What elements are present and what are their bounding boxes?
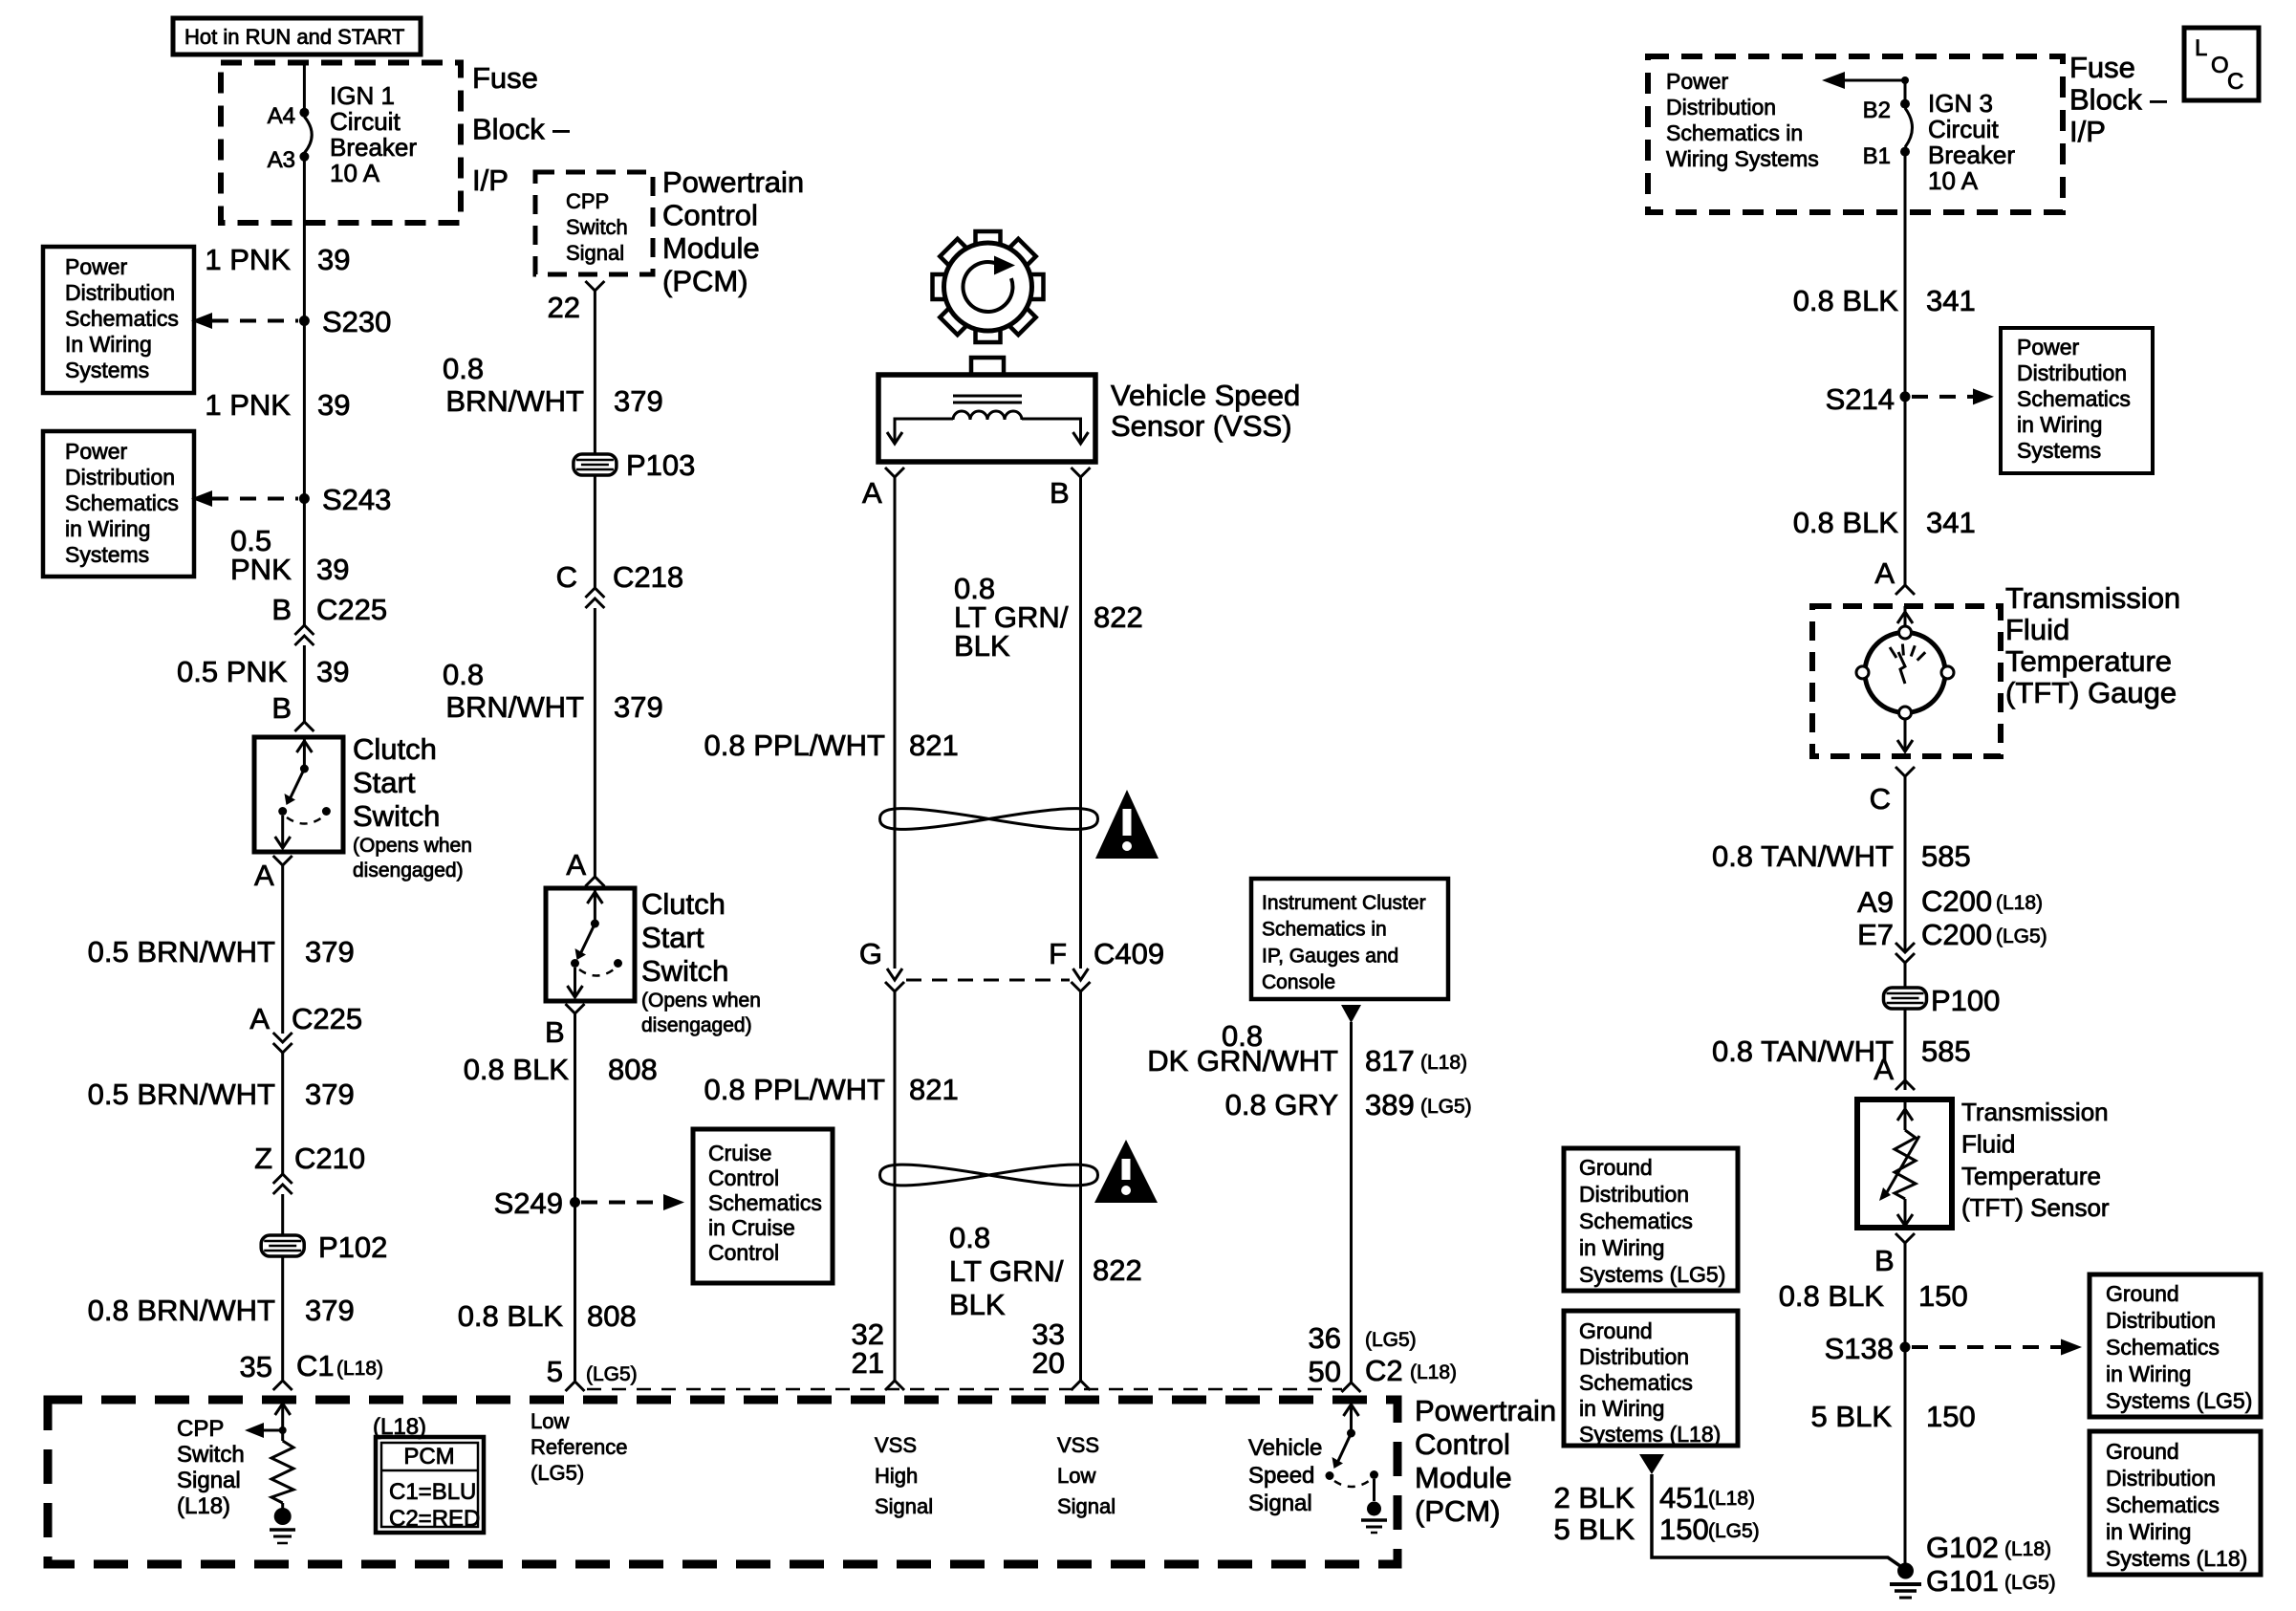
connector C200 symbol (double chevron down) — [1895, 943, 1915, 952]
svg-text:A: A — [862, 476, 882, 510]
svg-text:Circuit: Circuit — [330, 107, 401, 136]
wire clutch switch A to C225 pin A, circuit 379 — [281, 865, 284, 1034]
svg-text:C210: C210 — [294, 1142, 365, 1175]
svg-text:Breaker: Breaker — [330, 133, 417, 162]
svg-text:BRN/WHT: BRN/WHT — [445, 690, 584, 724]
svg-text:in Wiring: in Wiring — [1579, 1235, 1664, 1260]
wire S249 to PCM pin 5 — [574, 1207, 576, 1381]
wire C409 G to PCM pins 32/21 — [894, 991, 897, 1381]
PCM internal CPP switch signal pin arrow — [281, 1402, 284, 1441]
svg-text:Fluid: Fluid — [1961, 1129, 2015, 1158]
svg-text:VSS: VSS — [875, 1433, 917, 1457]
svg-text:Low: Low — [1057, 1464, 1095, 1488]
svg-text:Wiring Systems: Wiring Systems — [1666, 146, 1819, 171]
svg-text:C2: C2 — [1365, 1354, 1403, 1387]
svg-text:in Wiring: in Wiring — [1579, 1396, 1664, 1421]
svg-text:22: 22 — [548, 291, 580, 324]
svg-text:I/P: I/P — [472, 163, 509, 197]
svg-text:Speed: Speed — [1248, 1463, 1314, 1489]
svg-text:1 PNK: 1 PNK — [205, 243, 291, 276]
svg-text:B1: B1 — [1863, 143, 1891, 169]
reference box Ground Distribution Schematics in Wiring Systems (LG5) middle — [1564, 1148, 1738, 1291]
svg-text:Signal: Signal — [1248, 1491, 1312, 1516]
svg-text:Module: Module — [1415, 1461, 1512, 1494]
svg-text:0.8 GRY: 0.8 GRY — [1225, 1088, 1338, 1121]
svg-text:0.8 TAN/WHT: 0.8 TAN/WHT — [1712, 839, 1894, 873]
svg-text:C409: C409 — [1094, 937, 1164, 970]
fuse block I/P dashed box (left) — [221, 63, 461, 224]
svg-text:Power: Power — [1666, 69, 1729, 94]
dashed arrow from S243 to power distribution box — [212, 497, 298, 501]
svg-text:I/P: I/P — [2069, 115, 2106, 148]
wire feed to breaker B2 — [1904, 80, 1907, 100]
wire P100 to TFT sensor pin A — [1904, 1010, 1907, 1090]
svg-text:E7: E7 — [1857, 918, 1894, 951]
svg-text:822: 822 — [1094, 600, 1143, 634]
svg-text:39: 39 — [317, 388, 350, 422]
svg-text:Signal: Signal — [875, 1494, 933, 1518]
svg-text:Start: Start — [353, 766, 416, 799]
dashed arrow from S138 to ground distribution box — [1912, 1345, 2061, 1349]
svg-text:Schematics: Schematics — [65, 490, 179, 515]
svg-text:Systems: Systems — [65, 358, 149, 382]
pin chevron at VSS B — [1072, 468, 1091, 477]
PCM internal vehicle speed signal switch pin arrow — [1350, 1402, 1353, 1433]
svg-text:Systems (L18): Systems (L18) — [2106, 1546, 2247, 1571]
pin chevron at PCM pin 21 — [885, 1381, 904, 1390]
svg-text:In Wiring: In Wiring — [65, 332, 152, 357]
svg-text:Transmission: Transmission — [2005, 581, 2180, 615]
wire clutch switch 2 B to S249, circuit 808 — [574, 1013, 576, 1198]
svg-text:Console: Console — [1262, 971, 1335, 993]
svg-text:S249: S249 — [494, 1186, 563, 1220]
VSS pickup coil — [953, 411, 1022, 420]
transmission fluid temperature TFT gauge dashed box — [1812, 606, 2001, 756]
wire C409 F to PCM pins 33/20 — [1079, 991, 1082, 1381]
svg-text:F: F — [1049, 937, 1067, 970]
VSS internal wire to pin B — [1022, 419, 1081, 442]
wire instrument cluster to PCM pin 50, circuit 817/389 — [1350, 1022, 1353, 1382]
svg-text:Schematics: Schematics — [65, 306, 179, 331]
svg-text:Fuse: Fuse — [2069, 51, 2135, 84]
svg-text:379: 379 — [305, 1078, 355, 1111]
terminal A3 — [299, 152, 309, 162]
svg-text:817: 817 — [1365, 1044, 1415, 1078]
wire P102 to PCM pin 35, circuit 379 — [281, 1256, 284, 1380]
clutch start switch 2 bottom pin — [574, 968, 576, 997]
svg-text:C: C — [1870, 782, 1891, 816]
svg-text:Distribution: Distribution — [2017, 360, 2127, 385]
svg-text:379: 379 — [614, 384, 663, 418]
svg-text:35: 35 — [240, 1350, 272, 1383]
connector C210 symbol (double chevron up) — [273, 1174, 292, 1184]
wire C218 to clutch start switch pin A — [594, 608, 596, 877]
svg-text:Control: Control — [708, 1240, 779, 1265]
svg-text:Reference: Reference — [531, 1435, 628, 1459]
svg-text:IGN 3: IGN 3 — [1928, 89, 1993, 118]
svg-text:P102: P102 — [318, 1230, 387, 1264]
clutch start switch 2 blade (open) — [581, 924, 595, 952]
svg-text:(Opens when: (Opens when — [641, 990, 761, 1012]
PCM ground wire to G102/G101 — [1652, 1474, 1900, 1566]
svg-text:S230: S230 — [322, 305, 391, 338]
arrow from ground boxes to PCM ground wire — [1639, 1454, 1664, 1474]
svg-text:0.8 BLK: 0.8 BLK — [1793, 284, 1899, 317]
svg-text:(L18): (L18) — [2004, 1538, 2051, 1560]
TFT sensor thermistor zigzag — [1895, 1130, 1916, 1199]
reference box Power Distribution Schematics in Wiring Systems (lower left) — [43, 431, 194, 577]
svg-text:in Wiring: in Wiring — [2106, 1519, 2191, 1544]
twisted pair symbol (upper) — [880, 809, 1098, 830]
svg-text:0.8 PPL/WHT: 0.8 PPL/WHT — [704, 729, 886, 762]
svg-text:Module: Module — [662, 231, 760, 265]
clutch start switch contacts — [278, 807, 287, 816]
svg-text:1 PNK: 1 PNK — [205, 388, 291, 422]
svg-text:(L18): (L18) — [1410, 1361, 1457, 1383]
svg-text:341: 341 — [1926, 284, 1976, 317]
svg-text:A: A — [254, 859, 274, 892]
svg-text:IGN 1: IGN 1 — [330, 81, 395, 110]
svg-text:0.8 TAN/WHT: 0.8 TAN/WHT — [1712, 1034, 1894, 1068]
svg-text:150: 150 — [1926, 1400, 1976, 1433]
wire from Hot feed to breaker A4 — [303, 65, 306, 109]
svg-text:5 BLK: 5 BLK — [1554, 1513, 1635, 1546]
svg-text:(Opens when: (Opens when — [353, 835, 472, 857]
svg-text:Signal: Signal — [1057, 1494, 1116, 1518]
reluctor gear rotation arrow — [963, 262, 1012, 312]
svg-text:BRN/WHT: BRN/WHT — [445, 384, 584, 418]
svg-text:High: High — [875, 1464, 918, 1488]
svg-text:A9: A9 — [1857, 885, 1894, 919]
svg-text:808: 808 — [608, 1053, 658, 1086]
svg-text:C1=BLU: C1=BLU — [389, 1479, 476, 1505]
svg-text:A: A — [249, 1002, 270, 1035]
svg-text:Fuse: Fuse — [472, 61, 538, 95]
svg-text:G: G — [859, 937, 882, 970]
svg-text:G102: G102 — [1926, 1531, 1999, 1564]
svg-text:(L18): (L18) — [336, 1358, 383, 1380]
reference box Instrument Cluster Schematics in IP, Gauges and Console — [1251, 879, 1448, 999]
svg-text:Power: Power — [65, 439, 128, 464]
svg-text:VSS: VSS — [1057, 1433, 1099, 1457]
svg-text:disengaged): disengaged) — [353, 860, 464, 882]
wire C225 to C210 pin Z — [281, 1053, 284, 1174]
svg-text:0.8 BLK: 0.8 BLK — [464, 1053, 570, 1086]
svg-text:S214: S214 — [1826, 382, 1895, 416]
svg-text:A3: A3 — [268, 147, 295, 173]
svg-text:B2: B2 — [1863, 98, 1891, 123]
terminal B1 — [1900, 147, 1910, 157]
svg-text:P100: P100 — [1931, 984, 2000, 1017]
VSS mounting tab — [971, 358, 1004, 375]
svg-text:Switch: Switch — [566, 215, 628, 239]
svg-text:Cruise: Cruise — [708, 1141, 771, 1165]
svg-text:(L18): (L18) — [177, 1493, 230, 1519]
svg-text:Switch: Switch — [641, 954, 728, 988]
pin chevron at PCM pin 50 — [1342, 1382, 1361, 1392]
clutch start switch bottom pin — [281, 816, 284, 848]
svg-text:A4: A4 — [268, 103, 295, 129]
clutch start switch blade (open) — [291, 769, 304, 797]
pin chevron at clutch start switch 2 B — [566, 1004, 585, 1013]
pin chevron at clutch start switch 2 A — [585, 877, 604, 886]
svg-text:Hot in RUN and START: Hot in RUN and START — [184, 25, 404, 49]
reference box Ground Distribution Schematics in Wiring Systems (L18) right — [2090, 1431, 2261, 1575]
wire S138 to ground G102/G101 — [1904, 1352, 1907, 1564]
svg-text:2 BLK: 2 BLK — [1554, 1481, 1635, 1514]
connector C409 arrows and chevrons — [887, 969, 902, 980]
pin chevron at PCM pin 20 — [1072, 1381, 1091, 1390]
svg-text:Systems: Systems — [65, 542, 149, 567]
pass-through grommet P102 — [261, 1235, 304, 1256]
TFT gauge needle and ticks — [1898, 652, 1905, 684]
svg-text:(LG5): (LG5) — [1420, 1096, 1472, 1118]
pass-through grommet P100 — [1884, 988, 1927, 1009]
svg-text:Fluid: Fluid — [2005, 613, 2069, 646]
svg-text:Schematics: Schematics — [2017, 386, 2131, 411]
svg-text:0.5 BRN/WHT: 0.5 BRN/WHT — [88, 1078, 275, 1111]
svg-text:C218: C218 — [613, 560, 683, 594]
svg-text:379: 379 — [614, 690, 663, 724]
svg-text:(TFT) Gauge: (TFT) Gauge — [2005, 676, 2177, 709]
TFT gauge top pin — [1904, 606, 1907, 627]
svg-text:CPP: CPP — [566, 189, 609, 213]
svg-text:A: A — [566, 848, 586, 882]
wire B1 to S214, circuit 341 — [1904, 156, 1907, 392]
svg-text:0.8: 0.8 — [443, 658, 484, 691]
svg-text:0.8: 0.8 — [949, 1221, 990, 1254]
svg-text:Distribution: Distribution — [2106, 1466, 2216, 1491]
svg-text:Ground: Ground — [1579, 1318, 1653, 1343]
svg-text:150: 150 — [1918, 1279, 1968, 1313]
ground symbol G102/G101 — [1890, 1582, 1921, 1586]
PCM internal ground dot — [1367, 1502, 1381, 1516]
svg-text:Schematics: Schematics — [708, 1190, 822, 1215]
svg-text:Schematics: Schematics — [2106, 1335, 2220, 1360]
terminal A4 — [299, 108, 309, 118]
svg-text:Vehicle Speed: Vehicle Speed — [1111, 379, 1300, 412]
warning note triangle (upper) — [1095, 790, 1159, 859]
splice S249 — [570, 1197, 580, 1208]
svg-text:Start: Start — [641, 921, 704, 954]
svg-text:39: 39 — [317, 243, 350, 276]
svg-text:39: 39 — [316, 553, 349, 586]
svg-text:0.8 BRN/WHT: 0.8 BRN/WHT — [88, 1294, 275, 1327]
svg-text:C: C — [556, 560, 577, 594]
svg-text:822: 822 — [1093, 1253, 1142, 1287]
twisted pair symbol (lower) — [880, 1165, 1098, 1186]
thin dashed harness line above PCM — [587, 1388, 1342, 1391]
svg-text:0.8: 0.8 — [443, 352, 484, 385]
transmission fluid temperature TFT sensor box — [1857, 1099, 1952, 1228]
svg-text:Temperature: Temperature — [1961, 1162, 2101, 1190]
svg-text:PNK: PNK — [230, 553, 292, 586]
svg-text:C1: C1 — [296, 1349, 335, 1382]
pin chevron at PCM pin 35 — [273, 1381, 292, 1390]
svg-text:C2=RED: C2=RED — [389, 1506, 480, 1532]
clutch start switch top pin — [303, 737, 306, 765]
svg-text:in Wiring: in Wiring — [65, 516, 150, 541]
svg-text:10 A: 10 A — [1928, 166, 1979, 195]
svg-text:in Cruise: in Cruise — [708, 1215, 795, 1240]
svg-text:0.8 BLK: 0.8 BLK — [1793, 506, 1899, 539]
svg-text:(PCM): (PCM) — [1415, 1494, 1501, 1528]
svg-text:5 BLK: 5 BLK — [1811, 1400, 1893, 1433]
svg-text:in Wiring: in Wiring — [2017, 412, 2102, 437]
TFT sensor bottom pin — [1904, 1199, 1907, 1226]
circuit breaker IGN 1 element — [304, 117, 312, 153]
pin chevron at PCM pin 5 — [566, 1382, 585, 1391]
svg-text:DK GRN/WHT: DK GRN/WHT — [1147, 1044, 1338, 1078]
svg-text:Schematics in: Schematics in — [1262, 919, 1387, 941]
reluctor gear teeth — [1030, 274, 1044, 299]
svg-text:BLK: BLK — [949, 1288, 1006, 1321]
svg-text:Distribution: Distribution — [1666, 95, 1776, 120]
svg-text:379: 379 — [305, 935, 355, 969]
wire S214 to TFT gauge pin A — [1904, 402, 1907, 585]
TFT gauge bottom pin — [1904, 719, 1907, 751]
wire S243 to connector C225 pin B — [303, 503, 306, 625]
wire pin 22 to P103, circuit 379 — [594, 291, 596, 454]
svg-text:(LG5): (LG5) — [2004, 1572, 2056, 1594]
PCM connector color key box — [376, 1437, 484, 1533]
svg-text:Instrument Cluster: Instrument Cluster — [1262, 892, 1426, 914]
svg-text:Block –: Block – — [2069, 83, 2167, 117]
svg-text:Powertrain: Powertrain — [662, 165, 804, 199]
svg-text:B: B — [545, 1015, 565, 1049]
svg-text:39: 39 — [316, 655, 349, 688]
svg-text:Breaker: Breaker — [1928, 141, 2015, 169]
svg-text:(LG5): (LG5) — [1708, 1520, 1760, 1542]
wire A3 to S230, circuit 39 — [303, 161, 306, 316]
PCM internal wire to ground — [1373, 1479, 1375, 1501]
svg-text:Ground: Ground — [2106, 1281, 2179, 1306]
connector C409 dashed connector line — [906, 979, 1070, 982]
svg-text:(L18): (L18) — [1420, 1052, 1467, 1074]
pin chevron at VSS A — [885, 468, 904, 477]
svg-text:Switch: Switch — [353, 799, 440, 833]
svg-text:(TFT) Sensor: (TFT) Sensor — [1961, 1193, 2110, 1222]
svg-text:Signal: Signal — [177, 1468, 241, 1493]
svg-text:Signal: Signal — [566, 241, 624, 265]
svg-text:Power: Power — [2017, 335, 2080, 359]
fuse block I/P dashed box (right) — [1648, 56, 2063, 212]
TFT sensor top pin — [1904, 1099, 1907, 1130]
svg-text:Temperature: Temperature — [2005, 644, 2172, 678]
svg-text:(L18): (L18) — [1996, 892, 2043, 914]
svg-text:10 A: 10 A — [330, 159, 380, 187]
svg-text:Distribution: Distribution — [2106, 1308, 2216, 1333]
dashed arrow from S249 to cruise control box — [581, 1201, 663, 1205]
svg-text:Systems (LG5): Systems (LG5) — [2106, 1388, 2252, 1413]
svg-text:B: B — [1050, 476, 1070, 510]
splice S243 — [299, 493, 310, 504]
clutch start switch 2 contacts — [571, 959, 579, 968]
svg-text:IP, Gauges and: IP, Gauges and — [1262, 945, 1398, 967]
pin chevron at clutch start switch A — [273, 856, 292, 865]
svg-text:585: 585 — [1921, 839, 1971, 873]
location grid box L O C — [2184, 28, 2259, 100]
splice S230 — [299, 316, 310, 326]
feed arrow inside fuse block — [1845, 79, 1905, 82]
svg-text:CPP: CPP — [177, 1416, 224, 1442]
svg-text:Z: Z — [254, 1142, 272, 1175]
svg-text:(PCM): (PCM) — [662, 265, 748, 298]
PCM internal ground symbol — [270, 1528, 295, 1532]
svg-text:BLK: BLK — [954, 629, 1010, 663]
svg-text:disengaged): disengaged) — [641, 1014, 752, 1036]
wire C225 to clutch start switch pin B — [303, 645, 306, 722]
svg-text:20: 20 — [1032, 1346, 1065, 1380]
connector C225 symbol (double chevron) — [294, 625, 314, 635]
VSS core lines — [953, 395, 1022, 398]
svg-text:Power: Power — [65, 254, 128, 279]
svg-text:821: 821 — [909, 1073, 959, 1106]
svg-text:Distribution: Distribution — [65, 465, 175, 490]
clutch start switch box (left) — [254, 737, 343, 852]
svg-text:Switch: Switch — [177, 1442, 245, 1468]
svg-text:C: C — [2227, 69, 2243, 95]
svg-text:821: 821 — [909, 729, 959, 762]
svg-text:Systems: Systems — [2017, 438, 2101, 463]
svg-text:Ground: Ground — [1579, 1155, 1653, 1180]
reference box Ground Distribution Schematics in Wiring Systems (LG5) right — [2090, 1274, 2261, 1417]
svg-text:Schematics in: Schematics in — [1666, 120, 1803, 145]
svg-text:Circuit: Circuit — [1928, 115, 1999, 143]
wire VSS B to C409, circuit 822 — [1079, 477, 1082, 969]
reference box Ground Distribution Schematics in Wiring Systems (L18) middle — [1564, 1311, 1738, 1446]
svg-text:C225: C225 — [316, 593, 387, 626]
pass-through grommet P103 — [574, 454, 617, 475]
vehicle speed sensor VSS box — [878, 375, 1095, 462]
svg-text:36: 36 — [1309, 1321, 1341, 1355]
svg-text:PCM: PCM — [403, 1444, 454, 1469]
svg-text:Schematics: Schematics — [2106, 1492, 2220, 1517]
reference box Power Distribution Schematics in Wiring Systems (right) — [2001, 328, 2153, 473]
svg-text:G101: G101 — [1926, 1564, 1999, 1598]
svg-text:0.5 PNK: 0.5 PNK — [177, 655, 288, 688]
svg-text:(L18): (L18) — [1708, 1488, 1755, 1510]
svg-text:21: 21 — [852, 1346, 884, 1380]
svg-text:B: B — [271, 593, 292, 626]
reluctor gear body — [944, 243, 1032, 331]
svg-text:Control: Control — [1415, 1427, 1510, 1461]
wire TFT sensor B to S138, circuit 150 — [1904, 1243, 1907, 1344]
svg-text:S138: S138 — [1825, 1332, 1894, 1365]
clutch start switch box (middle) — [546, 888, 635, 1001]
svg-text:Sensor (VSS): Sensor (VSS) — [1111, 409, 1292, 443]
PCM internal pull-up resistor — [271, 1441, 293, 1503]
clutch start switch dashed travel arc — [287, 817, 322, 824]
PCP internal branch to CPP switch signal — [279, 1426, 287, 1434]
svg-text:B: B — [271, 691, 292, 725]
svg-text:Powertrain: Powertrain — [1415, 1394, 1556, 1427]
svg-text:Transmission: Transmission — [1961, 1098, 2109, 1126]
svg-text:A: A — [1874, 1053, 1894, 1086]
ground junction dot G102/G101 — [1897, 1563, 1914, 1579]
svg-text:L: L — [2195, 35, 2207, 61]
svg-text:(LG5): (LG5) — [531, 1461, 584, 1485]
svg-text:Clutch: Clutch — [641, 887, 726, 921]
svg-text:Distribution: Distribution — [65, 280, 175, 305]
wire C210 to pass-through P102 — [281, 1194, 284, 1235]
svg-text:C225: C225 — [292, 1002, 362, 1035]
svg-text:LT GRN/: LT GRN/ — [949, 1254, 1064, 1288]
svg-text:5: 5 — [547, 1355, 563, 1388]
svg-text:379: 379 — [305, 1294, 355, 1327]
PCM internal switch dashed travel arc — [1334, 1481, 1369, 1487]
wire P103 to connector C218 — [594, 475, 596, 588]
